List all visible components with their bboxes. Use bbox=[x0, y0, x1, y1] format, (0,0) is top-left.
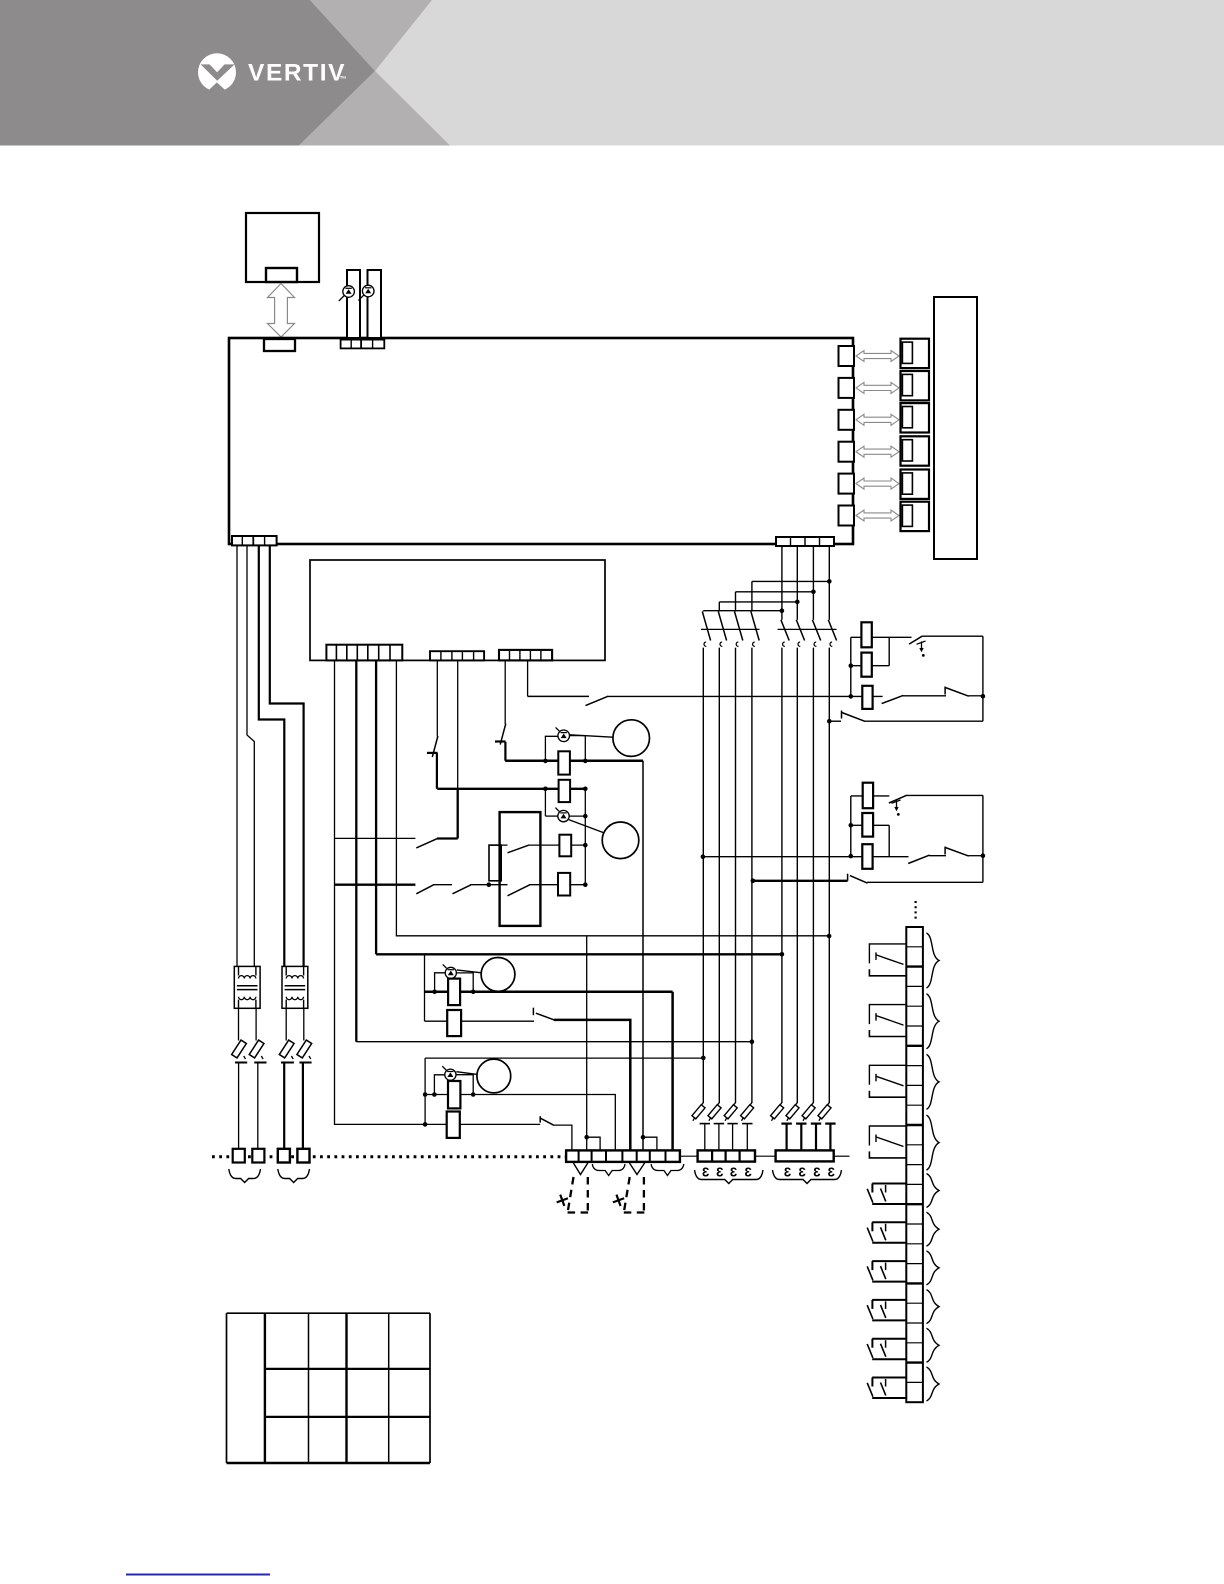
strip link wire bbox=[755, 1155, 776, 1157]
fuse FC1a bbox=[861, 622, 871, 647]
wire B4 main bbox=[828, 648, 830, 1103]
contact blade bbox=[536, 1013, 554, 1020]
wire comp1 mid bbox=[851, 665, 889, 667]
terminal box TB4 bbox=[297, 1149, 309, 1163]
contact tick bbox=[944, 687, 946, 695]
wire v2 bbox=[355, 660, 357, 1041]
sensor leads M2 bbox=[545, 815, 557, 817]
wire A1 main bbox=[702, 648, 704, 1103]
fuse F3 bbox=[279, 1008, 294, 1149]
cable arrow 3 bbox=[856, 414, 899, 425]
group brace 4 bbox=[927, 1115, 940, 1170]
wire v5 lower bbox=[436, 753, 438, 789]
fuse FM2b bbox=[559, 835, 571, 857]
fuse FM4 bbox=[448, 1081, 460, 1108]
feeder wire 1041 bbox=[356, 1041, 752, 1043]
plug key PL2 bbox=[902, 374, 912, 395]
contactor pole A4 bbox=[751, 612, 759, 647]
wire 884 d bbox=[529, 884, 585, 886]
power cable L4 bbox=[270, 545, 304, 966]
strip link wire bbox=[834, 1155, 850, 1157]
overload sensor M1 bbox=[556, 727, 570, 741]
drop wire m3 bbox=[424, 954, 426, 1021]
Vertiv logo circle bbox=[198, 53, 236, 91]
wire B3 upper bbox=[812, 546, 814, 620]
wire B4 upper bbox=[828, 546, 830, 620]
wire B1 main bbox=[781, 648, 783, 1103]
svg-text:3: 3 bbox=[813, 1165, 820, 1180]
power cable L2 bbox=[247, 545, 254, 966]
wire A2 upper bbox=[718, 602, 720, 612]
wire A3 main bbox=[735, 648, 737, 1103]
relay terminal column bbox=[906, 927, 923, 1402]
contact blade bbox=[882, 695, 904, 703]
wire v6 lower bbox=[457, 789, 459, 839]
group brace 7 bbox=[927, 1251, 940, 1285]
staircase wire 3 bbox=[736, 591, 814, 593]
junction bbox=[543, 787, 548, 792]
wire 845 a bbox=[489, 844, 508, 846]
board1 output connector CN5 bbox=[839, 474, 855, 494]
contactor linkage B bbox=[778, 628, 837, 630]
polarity mark 1 bbox=[555, 1193, 570, 1208]
contactor pole B2 bbox=[796, 620, 804, 647]
contact on v7 bbox=[495, 724, 506, 745]
junction bbox=[811, 590, 816, 595]
junction bbox=[584, 1135, 589, 1140]
plug housing PL5 bbox=[901, 470, 930, 499]
svg-text:3: 3 bbox=[828, 1165, 835, 1180]
contact on v5 bbox=[427, 736, 438, 757]
group brace 2 bbox=[927, 994, 940, 1049]
sensor plug P1 bbox=[347, 270, 360, 338]
fuse F4 bbox=[297, 1008, 312, 1149]
junction bbox=[432, 1092, 437, 1097]
board1 output connector CN6 bbox=[839, 506, 855, 526]
contact blade bbox=[850, 876, 868, 884]
junction bbox=[701, 854, 706, 859]
contact blade bbox=[586, 696, 609, 705]
board2 connector group1 bbox=[326, 645, 402, 661]
brace cells3-4 bbox=[592, 1164, 625, 1176]
secondary board bbox=[310, 560, 605, 660]
junction bbox=[795, 600, 800, 605]
wire comp2 mid bbox=[851, 824, 889, 826]
group brace 10 bbox=[927, 1367, 940, 1401]
thermistor B1 symbol bbox=[339, 286, 355, 301]
junction bbox=[583, 882, 588, 887]
wire fan1 return bbox=[642, 761, 644, 1137]
terminal box TB3 bbox=[278, 1149, 290, 1163]
group brace 8 bbox=[927, 1290, 940, 1324]
disconnect A3 bbox=[724, 1103, 738, 1151]
wire comp1 right side bbox=[982, 636, 984, 721]
wire v5 bbox=[436, 660, 438, 736]
transformer T2 bbox=[282, 966, 308, 1008]
v-mark cells1-2 bbox=[573, 1163, 587, 1175]
wire comp1 control c bbox=[903, 695, 946, 697]
brace cells7-8 bbox=[651, 1164, 684, 1176]
wire A1 feeder bbox=[425, 1057, 703, 1059]
svg-text:3: 3 bbox=[716, 1165, 723, 1180]
fuse FC1b bbox=[861, 653, 871, 677]
interlock relay box bbox=[500, 812, 541, 926]
fan supply wire 1 bbox=[505, 759, 643, 762]
plug housing PL3 bbox=[901, 403, 930, 432]
wire to fan motor 3 bbox=[457, 970, 482, 973]
fuse F1 bbox=[232, 1008, 248, 1149]
contact blade bbox=[416, 839, 437, 848]
junction bbox=[780, 952, 785, 957]
link vertical bbox=[888, 637, 890, 665]
thermistor B2 symbol bbox=[358, 285, 374, 300]
disconnect B4 bbox=[818, 1103, 836, 1151]
thermistor bracket M3 bbox=[435, 973, 474, 992]
field wiring dashed 2 bbox=[624, 1177, 645, 1213]
wire to fan motor 4 bbox=[456, 1072, 477, 1075]
field wiring dashed 1 bbox=[568, 1177, 589, 1213]
contactor pole A3 bbox=[735, 612, 743, 647]
plug key PL1 bbox=[902, 342, 912, 363]
junction bbox=[543, 759, 548, 764]
group brace 6 bbox=[927, 1212, 940, 1246]
wire A1 upper bbox=[702, 610, 704, 613]
relay contact K10 bbox=[867, 1378, 906, 1399]
wire B1 upper bbox=[781, 546, 783, 620]
sensor plug P2 bbox=[368, 270, 382, 338]
junction bbox=[701, 1056, 706, 1061]
relay contact K7 bbox=[867, 1261, 906, 1282]
wire comp1 control d bbox=[969, 695, 983, 697]
junction bbox=[780, 608, 785, 613]
disconnect B2 bbox=[786, 1103, 807, 1151]
plug key PL4 bbox=[902, 440, 912, 461]
disconnect A4 bbox=[741, 1103, 754, 1151]
HP switch symbol 2 bbox=[892, 800, 901, 816]
bracket vertical bbox=[850, 637, 852, 696]
contact blade bbox=[909, 636, 922, 644]
wire v3 bbox=[375, 660, 377, 954]
wire comp1 bottom bbox=[865, 720, 983, 722]
plug housing PL4 bbox=[901, 436, 930, 465]
contactor linkage A bbox=[701, 628, 760, 630]
fan supply wire 3 bbox=[425, 991, 673, 994]
display unit connector tab bbox=[266, 268, 297, 282]
board2 connector group3 bbox=[499, 650, 552, 661]
plug key PL6 bbox=[902, 505, 912, 526]
right fan terminal strip bbox=[776, 1150, 834, 1161]
junction bbox=[423, 1122, 428, 1127]
fan motor 2 bbox=[602, 822, 639, 859]
polarity mark 2 bbox=[611, 1193, 626, 1208]
board1 bottom-left connector bbox=[232, 536, 277, 545]
wire comp1 top bbox=[922, 635, 983, 637]
contact blade m4 bbox=[540, 1116, 554, 1125]
terminal box TB1 bbox=[233, 1149, 245, 1163]
contact blade bbox=[453, 885, 471, 894]
relay contact K3 bbox=[869, 1065, 906, 1097]
board1 bottom-right connector bbox=[776, 537, 834, 546]
fuse FC2b bbox=[862, 813, 873, 837]
wire to fan motor 1 bbox=[570, 735, 613, 737]
junction bbox=[641, 1135, 646, 1140]
relay contact K2 bbox=[869, 1005, 906, 1037]
footer link line bbox=[126, 1574, 270, 1576]
power cable L3 bbox=[259, 545, 285, 966]
wire v6 bbox=[457, 660, 459, 788]
contactor pole B3 bbox=[812, 620, 820, 647]
contact tick bbox=[841, 711, 843, 719]
fuse FM2c bbox=[558, 873, 570, 896]
board1 output connector CN2 bbox=[839, 378, 855, 398]
display unit box bbox=[246, 213, 319, 282]
thermistor bracket M2 right bbox=[584, 789, 586, 885]
svg-text:3: 3 bbox=[702, 1165, 709, 1180]
svg-text:VERTIV: VERTIV bbox=[248, 60, 346, 87]
fan motor 1 bbox=[613, 720, 650, 757]
wire B3 main bbox=[812, 648, 814, 1103]
v-mark cells5-6 bbox=[630, 1163, 645, 1175]
wire comp2 feed a bbox=[851, 795, 890, 797]
fuse F2 bbox=[249, 1008, 266, 1149]
wire m3 lower bbox=[425, 1020, 535, 1022]
junction bbox=[981, 853, 986, 858]
board1 display connector bbox=[264, 339, 295, 351]
wire A4 main bbox=[751, 648, 753, 1103]
junction bbox=[827, 934, 832, 939]
junction bbox=[827, 579, 832, 584]
wire elbow to cell3 bbox=[587, 1137, 600, 1151]
wire comp2 c bbox=[929, 855, 946, 857]
disconnect B3 bbox=[802, 1103, 821, 1151]
junction bbox=[583, 843, 588, 848]
contact arm wire bbox=[437, 837, 458, 839]
board2 connector group2 bbox=[430, 651, 484, 660]
relay contact K9 bbox=[867, 1339, 906, 1360]
contactor pole A2 bbox=[718, 612, 726, 647]
junction bbox=[583, 814, 588, 819]
fuse FM3b bbox=[447, 1010, 461, 1036]
field wiring dotted line bbox=[212, 1155, 566, 1158]
fuse FC2c bbox=[862, 844, 872, 869]
display ribbon double arrow bbox=[268, 284, 295, 338]
contact tick bbox=[944, 847, 946, 855]
contact blade bbox=[889, 795, 907, 803]
wire B2 main bbox=[796, 648, 798, 1103]
junction bbox=[423, 1092, 428, 1097]
cable arrow 1 bbox=[856, 351, 899, 362]
fuse FM1 bbox=[558, 751, 570, 774]
contact blade bbox=[416, 885, 433, 894]
disconnect A1 bbox=[692, 1103, 710, 1151]
wire v7 bbox=[504, 660, 506, 724]
wire comp1 control bbox=[528, 695, 589, 697]
disconnect A2 bbox=[708, 1103, 724, 1151]
junction bbox=[432, 990, 437, 995]
plug housing PL6 bbox=[901, 502, 930, 531]
contact blade bbox=[945, 848, 968, 857]
junction bbox=[751, 879, 756, 884]
drop wire m4 bbox=[424, 1058, 426, 1124]
drop wire 586 bbox=[586, 936, 588, 1151]
contact tick bbox=[532, 1008, 534, 1016]
brace under TB1-2 bbox=[229, 1169, 261, 1183]
brace under right strip bbox=[773, 1170, 842, 1184]
transformer T1 bbox=[234, 966, 260, 1008]
Vertiv logo V mark bbox=[201, 64, 235, 94]
relay coil bbox=[489, 845, 501, 881]
plug key PL5 bbox=[902, 473, 912, 494]
staircase wire 4 bbox=[752, 580, 829, 582]
wire comp2 d bbox=[969, 855, 983, 857]
wire comp1 feed bbox=[851, 636, 912, 638]
group brace 3 bbox=[927, 1054, 940, 1109]
wire A4 upper bbox=[751, 581, 753, 611]
header lower medium triangle bbox=[299, 71, 450, 146]
main control board bbox=[229, 338, 853, 544]
contactor pole A1 bbox=[702, 612, 710, 647]
cable arrow 5 bbox=[856, 478, 899, 489]
wire comp2 right side bbox=[982, 795, 984, 882]
junction bbox=[849, 854, 854, 859]
interface panel bbox=[934, 297, 977, 559]
link vertical 2 bbox=[888, 825, 890, 856]
wire m4 lower b bbox=[553, 1125, 572, 1151]
thermistor bracket M1 bbox=[545, 736, 585, 761]
wire elbow to cell7 bbox=[643, 1137, 657, 1151]
junction bbox=[849, 694, 854, 699]
fan motor 3 bbox=[481, 958, 515, 992]
wire comp2 bottom bbox=[867, 881, 983, 883]
board1 output connector CN3 bbox=[839, 410, 855, 430]
junction bbox=[750, 1039, 755, 1044]
thermistor bracket M4 bbox=[434, 1075, 473, 1095]
wire 884 a bbox=[335, 884, 416, 886]
fuse FC1c bbox=[862, 686, 872, 709]
relay contact K6 bbox=[867, 1222, 906, 1243]
wire v4 bbox=[396, 660, 829, 935]
center terminal strip bbox=[566, 1150, 680, 1162]
strip link wire bbox=[680, 1155, 698, 1157]
wire m4 upper bbox=[425, 1095, 615, 1151]
board1 output connector CN1 bbox=[839, 346, 855, 366]
fan supply wire 2 bbox=[437, 788, 585, 790]
svg-text:3: 3 bbox=[784, 1165, 791, 1180]
wire comp2 bottom feed bbox=[753, 880, 848, 882]
wire 845 b bbox=[528, 844, 585, 846]
fuse FC2a bbox=[863, 783, 873, 809]
terminal box TB2 bbox=[252, 1149, 264, 1163]
relay contact K8 bbox=[867, 1300, 906, 1321]
overload sensor M3 bbox=[443, 964, 457, 978]
bracket vertical 2 bbox=[850, 796, 852, 857]
contact blade bbox=[908, 855, 929, 863]
wire A2 main bbox=[718, 648, 720, 1103]
wire to contact bbox=[335, 837, 416, 839]
feeder wire thick bbox=[376, 953, 782, 955]
group brace 1 bbox=[927, 933, 940, 988]
contact blade bbox=[508, 845, 529, 853]
staircase wire 2 bbox=[719, 601, 797, 603]
wire to fan motor 2 bbox=[569, 820, 604, 833]
cable arrow 6 bbox=[856, 510, 899, 521]
contact blade bbox=[842, 713, 865, 722]
junction bbox=[471, 1092, 476, 1097]
relay contact K4 bbox=[869, 1126, 906, 1158]
relay contact K5 bbox=[867, 1184, 906, 1205]
wire 884 c bbox=[470, 884, 507, 886]
junction bbox=[827, 719, 832, 724]
junction bbox=[849, 663, 854, 668]
fuse FM3 bbox=[448, 979, 460, 1006]
contact blade bbox=[508, 885, 530, 896]
relay contact K1 bbox=[869, 944, 906, 976]
plug key PL3 bbox=[902, 407, 912, 428]
contactor pole B1 bbox=[781, 620, 789, 647]
thermistor bracket M2 left bbox=[544, 789, 546, 816]
wire A3 upper bbox=[735, 592, 737, 612]
fuse FM4b bbox=[447, 1112, 460, 1138]
wire comp2 feed bbox=[703, 856, 909, 858]
wire comp1 from B4 bbox=[829, 720, 841, 722]
contactor pole B4 bbox=[828, 620, 836, 647]
group brace 9 bbox=[927, 1328, 940, 1362]
power cable L1 bbox=[236, 545, 238, 966]
disconnect B1 bbox=[771, 1103, 792, 1151]
junction bbox=[981, 694, 986, 699]
svg-text:3: 3 bbox=[799, 1165, 806, 1180]
dotted continuation bbox=[914, 901, 916, 921]
wire comp1 control b bbox=[608, 695, 883, 697]
legend table bbox=[227, 1313, 431, 1463]
wire m3 return bbox=[671, 992, 674, 1151]
wire comp2 top bbox=[907, 794, 983, 796]
plug housing PL2 bbox=[901, 371, 930, 400]
svg-text:™: ™ bbox=[340, 76, 347, 83]
junction bbox=[583, 787, 588, 792]
wire m3 to cell5 bbox=[554, 1020, 631, 1151]
overload sensor M2 bbox=[555, 808, 569, 822]
HP switch symbol bbox=[917, 641, 926, 657]
cable arrow 2 bbox=[856, 382, 899, 393]
wire to cell6 bbox=[642, 1137, 644, 1151]
junction bbox=[583, 759, 588, 764]
brace under TB3-4 bbox=[278, 1169, 310, 1183]
wire v8 bbox=[527, 660, 529, 696]
wire 884 b bbox=[433, 884, 452, 886]
wire B2 upper bbox=[796, 546, 798, 620]
junction bbox=[471, 990, 476, 995]
contact tick bbox=[847, 874, 849, 881]
junction bbox=[487, 882, 492, 887]
svg-text:3: 3 bbox=[730, 1165, 737, 1180]
svg-text:3: 3 bbox=[745, 1165, 752, 1180]
sensor connector J1 bbox=[341, 340, 385, 349]
fan motor 4 bbox=[477, 1059, 511, 1093]
fuse FM2 bbox=[559, 780, 571, 802]
board1 output connector CN4 bbox=[839, 442, 855, 462]
junction bbox=[849, 823, 854, 828]
overload sensor M4 bbox=[442, 1066, 456, 1080]
left fan terminal strip bbox=[698, 1150, 755, 1161]
header banner base bbox=[0, 0, 1224, 146]
header upper medium triangle bbox=[310, 0, 432, 71]
brace under left strip bbox=[695, 1170, 764, 1184]
wire v7 lower bbox=[504, 742, 506, 761]
contact blade bbox=[945, 688, 968, 697]
wire v1 bbox=[335, 660, 541, 1124]
staircase wire 1 bbox=[703, 610, 782, 612]
